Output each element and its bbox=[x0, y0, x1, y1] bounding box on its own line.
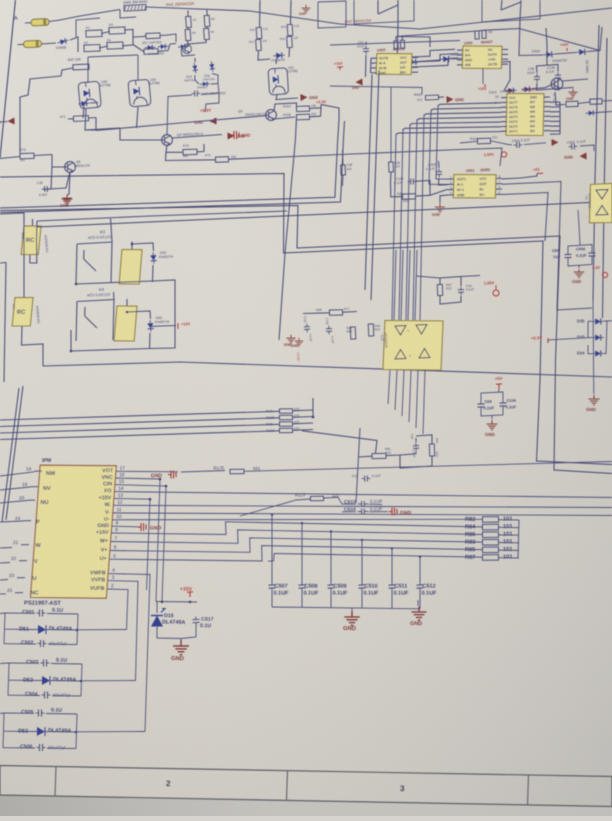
GND arrow right of R342 bbox=[447, 96, 464, 103]
pin12 wire bbox=[113, 505, 612, 507]
wire bbox=[342, 150, 345, 165]
wire bbox=[342, 511, 356, 513]
right edge small boxes bbox=[566, 101, 578, 107]
wire bbox=[431, 108, 501, 111]
wire bbox=[602, 100, 612, 103]
wire bbox=[409, 370, 411, 422]
diode D303 pair bbox=[407, 59, 419, 66]
wire bbox=[499, 549, 520, 551]
diode D42 bbox=[147, 320, 154, 332]
junction bbox=[271, 514, 273, 516]
diode D306 bbox=[57, 37, 69, 45]
wire bbox=[448, 183, 454, 185]
wire bbox=[301, 523, 303, 585]
wire bbox=[47, 747, 76, 749]
wire bbox=[137, 107, 139, 128]
wire bbox=[499, 542, 520, 544]
zener ZD3 bbox=[194, 58, 196, 62]
op-amp triangles in U13 bbox=[395, 326, 406, 336]
wire bbox=[23, 520, 31, 522]
wire bbox=[95, 118, 97, 131]
junction bbox=[301, 522, 303, 524]
wire bbox=[274, 103, 297, 111]
wire bbox=[76, 302, 77, 342]
junction bbox=[161, 601, 164, 604]
wire bbox=[550, 125, 560, 127]
wire bbox=[361, 540, 363, 585]
bus nest N2 up-branch bbox=[0, 105, 339, 209]
wire bbox=[113, 300, 114, 341]
junction bbox=[312, 416, 315, 419]
C69/C104 rails bbox=[481, 392, 503, 401]
wire bbox=[8, 694, 40, 696]
wire bbox=[240, 499, 311, 516]
C69 C104 caps bbox=[477, 401, 484, 410]
wire bbox=[412, 61, 418, 63]
wire bbox=[544, 120, 550, 122]
left edge stubs bbox=[0, 612, 5, 615]
wire bbox=[397, 0, 399, 26]
wire bbox=[365, 42, 367, 46]
wire bbox=[122, 30, 133, 46]
pin9 GND cap symbol bbox=[112, 525, 138, 528]
pin16 wire down to D15 rail bbox=[115, 478, 160, 602]
GND maroon small top bbox=[302, 5, 311, 13]
wire bbox=[461, 276, 480, 277]
wire bbox=[596, 112, 612, 113]
junction bbox=[330, 530, 332, 532]
wire bbox=[310, 108, 322, 117]
GND maroon top of relay zone bbox=[62, 195, 71, 204]
wire bbox=[77, 225, 112, 244]
wire bbox=[84, 259, 96, 271]
wire bbox=[34, 470, 42, 472]
wire bbox=[544, 96, 550, 98]
R304 row under ULN bbox=[477, 138, 490, 144]
wire bbox=[578, 102, 590, 104]
wire bbox=[448, 189, 454, 191]
junction bbox=[75, 283, 78, 286]
GND arrow right bbox=[564, 153, 586, 160]
wire bbox=[21, 326, 23, 335]
resistor pair R305/R306 bbox=[146, 33, 160, 39]
wire bbox=[499, 557, 520, 559]
wire bbox=[0, 213, 24, 290]
supply rail above U307 bbox=[330, 41, 460, 46]
wire bbox=[546, 28, 547, 65]
relay feed wire bbox=[37, 211, 287, 221]
wire bbox=[410, 122, 501, 125]
junction bbox=[419, 556, 421, 558]
wire bbox=[412, 58, 458, 67]
wire bbox=[390, 87, 392, 162]
wire bbox=[293, 422, 314, 425]
footer band bbox=[0, 766, 612, 807]
GND below cap row bbox=[351, 608, 353, 612]
GND maroon center bbox=[295, 338, 304, 346]
wire bbox=[588, 51, 600, 52]
wire bbox=[312, 398, 314, 417]
wire bbox=[550, 130, 560, 132]
wire bbox=[548, 338, 588, 340]
wire bbox=[34, 155, 52, 156]
wire bbox=[0, 579, 8, 582]
wire bbox=[412, 57, 418, 59]
wire bbox=[550, 111, 560, 113]
wire bbox=[343, 311, 358, 314]
wire bbox=[501, 111, 507, 113]
wire bbox=[0, 157, 20, 159]
wire bbox=[499, 526, 520, 528]
wire bbox=[401, 250, 403, 320]
wire bbox=[417, 117, 501, 120]
junction bbox=[361, 539, 363, 541]
pin13 +15V wire down bbox=[114, 498, 150, 590]
wire bbox=[19, 560, 27, 562]
wire bbox=[502, 53, 508, 55]
wire bbox=[440, 277, 461, 287]
wire bbox=[15, 592, 23, 594]
wire bbox=[187, 28, 189, 30]
wire bbox=[0, 593, 6, 595]
wire bbox=[0, 262, 6, 265]
wire bbox=[4, 613, 5, 644]
junction bbox=[75, 731, 78, 734]
wire bbox=[172, 135, 222, 139]
wire bbox=[46, 713, 77, 716]
ULN left fan wires bbox=[438, 103, 501, 106]
wire bbox=[395, 37, 397, 42]
relay body box 3 bbox=[482, 0, 540, 22]
wire bbox=[3, 747, 35, 749]
wire bbox=[391, 172, 403, 197]
right-edge long verticals bbox=[593, 25, 599, 300]
wire bbox=[550, 120, 560, 122]
opto U31 bbox=[268, 68, 289, 95]
wire bbox=[550, 106, 560, 108]
wire bbox=[303, 312, 330, 315]
pin7 wire corner to bus bbox=[111, 530, 482, 543]
junction bbox=[391, 547, 393, 549]
IPM left long wires bbox=[0, 472, 34, 476]
wire bbox=[76, 714, 77, 749]
wire bbox=[201, 84, 219, 95]
divider resistors R307-R310 bbox=[187, 11, 189, 17]
wire bbox=[460, 141, 478, 143]
pin4 wire to D53 bbox=[109, 574, 150, 732]
wire bbox=[369, 511, 388, 513]
connector J1 (pill) bbox=[25, 19, 49, 27]
cap C2R bbox=[192, 90, 201, 96]
wire bbox=[386, 452, 416, 456]
wire bbox=[17, 577, 25, 579]
wire bbox=[101, 32, 110, 34]
steep diagonal pair left bbox=[2, 388, 19, 522]
D302 diode pair right bbox=[505, 87, 516, 93]
tiny transistor top cluster bbox=[182, 45, 192, 54]
resistor ladder R301-R304 bbox=[70, 37, 78, 52]
cap C511 bbox=[388, 585, 395, 588]
zener ZD4 bbox=[209, 61, 215, 72]
wire bbox=[96, 116, 267, 131]
diode D304 pair bbox=[543, 51, 555, 58]
block wires bbox=[5, 612, 35, 614]
wire bbox=[358, 455, 372, 458]
wire bbox=[482, 69, 484, 85]
wire bbox=[67, 172, 70, 196]
wire bbox=[502, 62, 510, 91]
wire bbox=[562, 79, 588, 81]
wire bbox=[501, 97, 507, 99]
wire bbox=[168, 34, 176, 42]
wire bbox=[544, 101, 550, 103]
wire bbox=[89, 117, 96, 120]
wire bbox=[126, 299, 128, 306]
wire bbox=[555, 92, 565, 105]
wire bbox=[137, 55, 139, 80]
junction bbox=[189, 601, 192, 604]
pin11 wire bbox=[113, 513, 612, 516]
wire bbox=[429, 110, 448, 185]
IC U30 ULN2003 (yellow) bbox=[506, 94, 544, 136]
wire bbox=[371, 62, 377, 64]
wire bbox=[604, 321, 607, 354]
wire bbox=[413, 119, 417, 320]
wire bbox=[149, 333, 152, 349]
wire bbox=[111, 242, 112, 283]
bus nest N1 bbox=[0, 174, 612, 465]
wire bbox=[21, 544, 29, 546]
wire bbox=[133, 45, 144, 53]
wire bbox=[412, 66, 418, 68]
wire bbox=[76, 731, 145, 733]
wire bbox=[29, 255, 31, 264]
GND arrow right cluster bbox=[194, 118, 216, 125]
block wires bbox=[9, 662, 39, 664]
wire bbox=[537, 82, 559, 91]
opto U33 bbox=[78, 81, 101, 109]
H1 wire extension to right bbox=[281, 148, 502, 166]
IPM PS21997-AST (yellow) bbox=[31, 465, 117, 598]
wire bbox=[391, 588, 393, 609]
wire bbox=[195, 75, 199, 84]
wire bbox=[502, 63, 508, 65]
wire bbox=[293, 409, 314, 412]
wire bbox=[150, 326, 177, 327]
wire bbox=[77, 292, 114, 302]
wire bbox=[324, 496, 339, 499]
wire bbox=[338, 497, 356, 504]
wire bbox=[275, 59, 278, 65]
wire bbox=[166, 145, 183, 153]
relay contact sym 1 bbox=[377, 0, 379, 14]
wire bbox=[501, 125, 507, 127]
left vertical wire bbox=[4, 262, 6, 382]
bus line 6 to R87 bbox=[274, 554, 482, 558]
RC1 box (yellow) bbox=[12, 298, 33, 327]
wire bbox=[4, 643, 36, 645]
right bottom vertical bbox=[607, 320, 612, 322]
wire bbox=[440, 296, 461, 304]
wire from J1 bbox=[49, 10, 120, 22]
wire bbox=[401, 36, 404, 40]
wire bbox=[408, 250, 410, 320]
wire bbox=[544, 125, 550, 127]
wire bbox=[288, 48, 291, 57]
wire bbox=[52, 680, 81, 683]
ULN right wires bbox=[550, 101, 560, 103]
wire bbox=[502, 193, 548, 242]
junction bbox=[126, 311, 129, 314]
wire bbox=[167, 95, 192, 136]
wire bbox=[412, 54, 458, 63]
wire bbox=[403, 127, 501, 130]
junction bbox=[80, 680, 83, 683]
wire bbox=[181, 471, 225, 473]
transistor Q3 right bbox=[551, 78, 563, 90]
R45 resistor bbox=[368, 324, 374, 336]
wire bbox=[81, 680, 136, 682]
wire bbox=[8, 663, 9, 696]
R107 extension to R41 bbox=[302, 431, 377, 453]
wire bbox=[9, 679, 40, 681]
wire bbox=[415, 438, 417, 442]
IC U13b op-amp right edge (yellow) bbox=[590, 184, 612, 223]
left page border bbox=[0, 0, 15, 158]
junction bbox=[131, 243, 134, 246]
wire bbox=[158, 44, 170, 51]
wire bbox=[0, 121, 8, 124]
wire bbox=[588, 321, 592, 338]
wire bbox=[0, 418, 280, 427]
wire bbox=[83, 106, 84, 118]
wire bbox=[229, 157, 282, 159]
wire bbox=[0, 501, 27, 504]
wire bbox=[43, 167, 52, 189]
GND arrow mid bbox=[552, 139, 559, 146]
ULN fan verticals down bbox=[436, 105, 448, 179]
wire bbox=[502, 48, 508, 50]
wire bbox=[457, 49, 463, 51]
R30 resistor bbox=[402, 194, 415, 200]
wire bbox=[537, 65, 559, 74]
wire bbox=[330, 532, 332, 586]
wire bbox=[68, 118, 74, 120]
wire bbox=[519, 19, 543, 56]
wire bbox=[133, 36, 145, 39]
GND under C69 bbox=[491, 416, 493, 419]
wire bbox=[48, 643, 77, 645]
R38b resistor left bbox=[341, 165, 346, 175]
wire bbox=[52, 695, 81, 697]
wire bbox=[84, 307, 86, 316]
GND under 16393 bbox=[435, 203, 445, 212]
junction bbox=[70, 350, 73, 353]
R42 resistor bbox=[350, 327, 356, 339]
C84 rails bbox=[568, 245, 592, 252]
wire bbox=[419, 557, 421, 585]
wire bbox=[0, 431, 280, 440]
wire bbox=[452, 58, 475, 60]
wire bbox=[415, 250, 417, 320]
wire bbox=[424, 112, 501, 115]
wire bbox=[501, 121, 507, 123]
wire bbox=[395, 370, 397, 410]
caps column C133 C135 bbox=[304, 324, 310, 333]
wire bbox=[206, 27, 208, 29]
wire bbox=[51, 663, 82, 666]
IC U302 IR4427 (yellow) bbox=[462, 46, 502, 69]
K4 bottom rail bbox=[71, 330, 175, 351]
wire bbox=[120, 10, 136, 19]
wire bbox=[416, 189, 448, 196]
GND top right of D15 area bbox=[417, 600, 419, 606]
wire bbox=[110, 219, 113, 226]
wire bbox=[592, 300, 595, 394]
bus nest N3 up-branch bbox=[0, 121, 345, 213]
wire bbox=[568, 259, 592, 266]
wire bbox=[418, 60, 440, 62]
wire bbox=[258, 51, 270, 60]
wire bbox=[448, 194, 454, 196]
wire bbox=[197, 144, 204, 152]
wire bbox=[457, 64, 463, 66]
wire bbox=[27, 499, 35, 501]
transistor Q9 bbox=[265, 110, 276, 121]
wire bbox=[166, 152, 216, 160]
wire bbox=[399, 129, 403, 320]
wire bbox=[371, 67, 377, 69]
wire bbox=[0, 662, 9, 665]
main top wire bbox=[146, 7, 612, 29]
relay contact sym 2 bbox=[501, 0, 502, 10]
cap C507 bbox=[268, 585, 275, 588]
verticals to U13 top bbox=[394, 250, 396, 320]
GND symbol right of relay zone bbox=[286, 335, 295, 344]
zener ZD2 pair bbox=[145, 45, 156, 50]
wire bbox=[502, 58, 508, 60]
wire bbox=[501, 116, 507, 118]
pin15 wire down bbox=[115, 485, 166, 602]
wire bbox=[330, 86, 422, 95]
resistor pair above U302 bbox=[475, 31, 479, 39]
wire bbox=[160, 34, 168, 37]
wire bbox=[5, 628, 36, 630]
wire bbox=[30, 221, 37, 263]
wire bbox=[293, 416, 314, 419]
wire bbox=[90, 102, 98, 105]
wire bbox=[555, 53, 576, 55]
GND maroon under Q6 bbox=[62, 195, 73, 205]
wire bbox=[330, 588, 332, 608]
wire bbox=[49, 172, 70, 190]
wire bbox=[77, 614, 78, 645]
R38 resistor bbox=[389, 162, 394, 172]
wire bbox=[152, 265, 155, 282]
U13 bottom fan bbox=[388, 370, 390, 404]
wire bbox=[518, 520, 519, 558]
wire bbox=[268, 554, 274, 562]
wire bbox=[378, 5, 398, 14]
wire bbox=[85, 316, 97, 328]
wire bbox=[391, 548, 393, 585]
wire bbox=[301, 588, 303, 607]
wire bbox=[496, 183, 502, 185]
wire bbox=[588, 345, 592, 354]
wire bbox=[271, 515, 273, 585]
diode D11 1N4007W bbox=[273, 52, 285, 59]
wire bbox=[371, 57, 377, 59]
